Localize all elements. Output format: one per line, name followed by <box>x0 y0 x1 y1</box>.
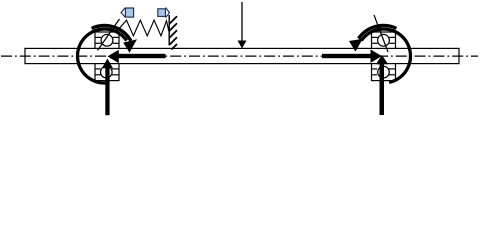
spring <box>112 20 169 36</box>
right rotation arrowhead <box>349 39 363 52</box>
blue displacement arrow 1 (points left) <box>121 8 134 18</box>
right bearing top block <box>372 32 396 48</box>
left bearing bottom block <box>95 64 119 81</box>
shaft body <box>25 48 459 63</box>
right rotation arrow arc (counterclockwise) <box>361 29 410 82</box>
right radial force arrow (points up) <box>376 55 388 115</box>
left rotation arrow outer band <box>92 26 131 41</box>
right rotation arrow outer band <box>359 26 397 39</box>
right bearing bottom block <box>372 64 396 81</box>
left bearing top slash <box>98 19 120 51</box>
blue displacement arrow 2 (points right) <box>158 8 170 18</box>
right axial force arrow (points right) <box>322 49 382 63</box>
left rotation arrowhead <box>123 39 137 52</box>
left rotation arrow arc (clockwise) <box>78 29 127 83</box>
left bearing top block <box>95 32 119 48</box>
middle load arrow (points down) <box>241 2 243 42</box>
wall line <box>168 15 170 45</box>
left axial force arrow (points left) <box>108 50 166 64</box>
shaft centerline <box>1 55 478 57</box>
wall hatching <box>169 16 177 49</box>
left radial force arrow (points up) <box>102 59 113 116</box>
right bearing top slash <box>374 15 388 52</box>
